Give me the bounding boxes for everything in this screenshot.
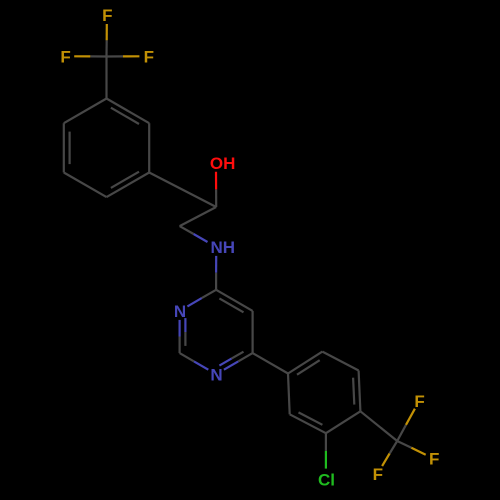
bond ring1 C1 - CF3 carbon C9	[105, 57, 107, 99]
bond ring2 C4 - CF3 carbon C10	[360, 411, 397, 441]
bond C10-F (bottom CF3, to lower-left F)	[390, 441, 398, 454]
bond C9-F (top CF3, to left F)	[90, 55, 106, 57]
svg-text:Cl: Cl	[318, 471, 335, 490]
ring1 bond C3-C4	[107, 173, 150, 198]
svg-text:F: F	[429, 450, 439, 469]
svg-text:F: F	[60, 47, 70, 66]
svg-text:OH: OH	[210, 154, 236, 173]
svg-text:F: F	[144, 47, 154, 66]
ring2 double bond inner line C2=C3	[299, 412, 323, 424]
svg-text:F: F	[414, 392, 424, 411]
svg-text:F: F	[373, 465, 383, 484]
bond C9-F (top CF3, to upper F)	[105, 40, 107, 56]
ring2 bond C3-C4	[326, 411, 361, 433]
ring1 double bond inner line C3=C4	[111, 172, 139, 188]
bond pyrimidine C6 - ring2 C1	[253, 353, 288, 373]
pyrimidine bond C5-C6	[252, 311, 254, 353]
pyrimidine bond C4-C5	[216, 290, 253, 311]
bond C8-NH	[180, 226, 194, 234]
ring1 bond C6-C1	[64, 99, 107, 124]
ring2 bond C2-C3	[290, 414, 326, 433]
ring2 bond C6-C1	[288, 352, 322, 374]
bond C7-C8 (CH2)	[180, 207, 217, 226]
bond C10-F (bottom CF3, to right F)	[397, 441, 411, 448]
ring1 double bond inner line C1=C2	[111, 108, 139, 124]
bond C7-OH	[215, 189, 217, 207]
pyrimidine bond C2-N3	[179, 337, 181, 354]
ring2 bond C5-C6	[322, 352, 358, 371]
pyrimidine bond N3-C4	[187, 298, 201, 306]
svg-text:N: N	[174, 302, 186, 321]
ring2 bond C1-C2	[288, 374, 290, 415]
bond ring1 C3 - carbinol carbon C7	[149, 173, 216, 208]
bond ring2 C3-Cl	[325, 433, 327, 451]
ring1 double bond inner line C5=C6	[68, 132, 70, 165]
ring2 double bond inner line C6=C1	[297, 360, 320, 375]
svg-text:NH: NH	[211, 238, 236, 257]
pyrimidine bond C6-N1	[238, 353, 252, 361]
pyrimidine double bond inner line C4=C5	[219, 298, 243, 312]
ring2 double bond inner line C4=C5	[353, 378, 354, 405]
svg-text:F: F	[102, 6, 112, 25]
ring1 bond C4-C5	[64, 173, 107, 198]
bond NH-pyrimidine C4	[215, 256, 217, 273]
svg-text:N: N	[210, 365, 222, 384]
pyrimidine double bond inner line C2=N3	[184, 332, 186, 346]
bond C9-F (top CF3, to right F)	[107, 55, 124, 57]
pyrimidine bond N1-C2	[194, 361, 208, 369]
ring2 bond C4-C5	[359, 371, 361, 412]
ring1 bond C1-C2	[107, 99, 150, 124]
ring1 bond C2-C3	[148, 123, 150, 172]
bond C10-F (bottom CF3, to upper F)	[397, 425, 406, 441]
ring1 bond C5-C6	[63, 123, 65, 172]
pyrimidine double bond inner line C6=N1	[232, 352, 244, 359]
